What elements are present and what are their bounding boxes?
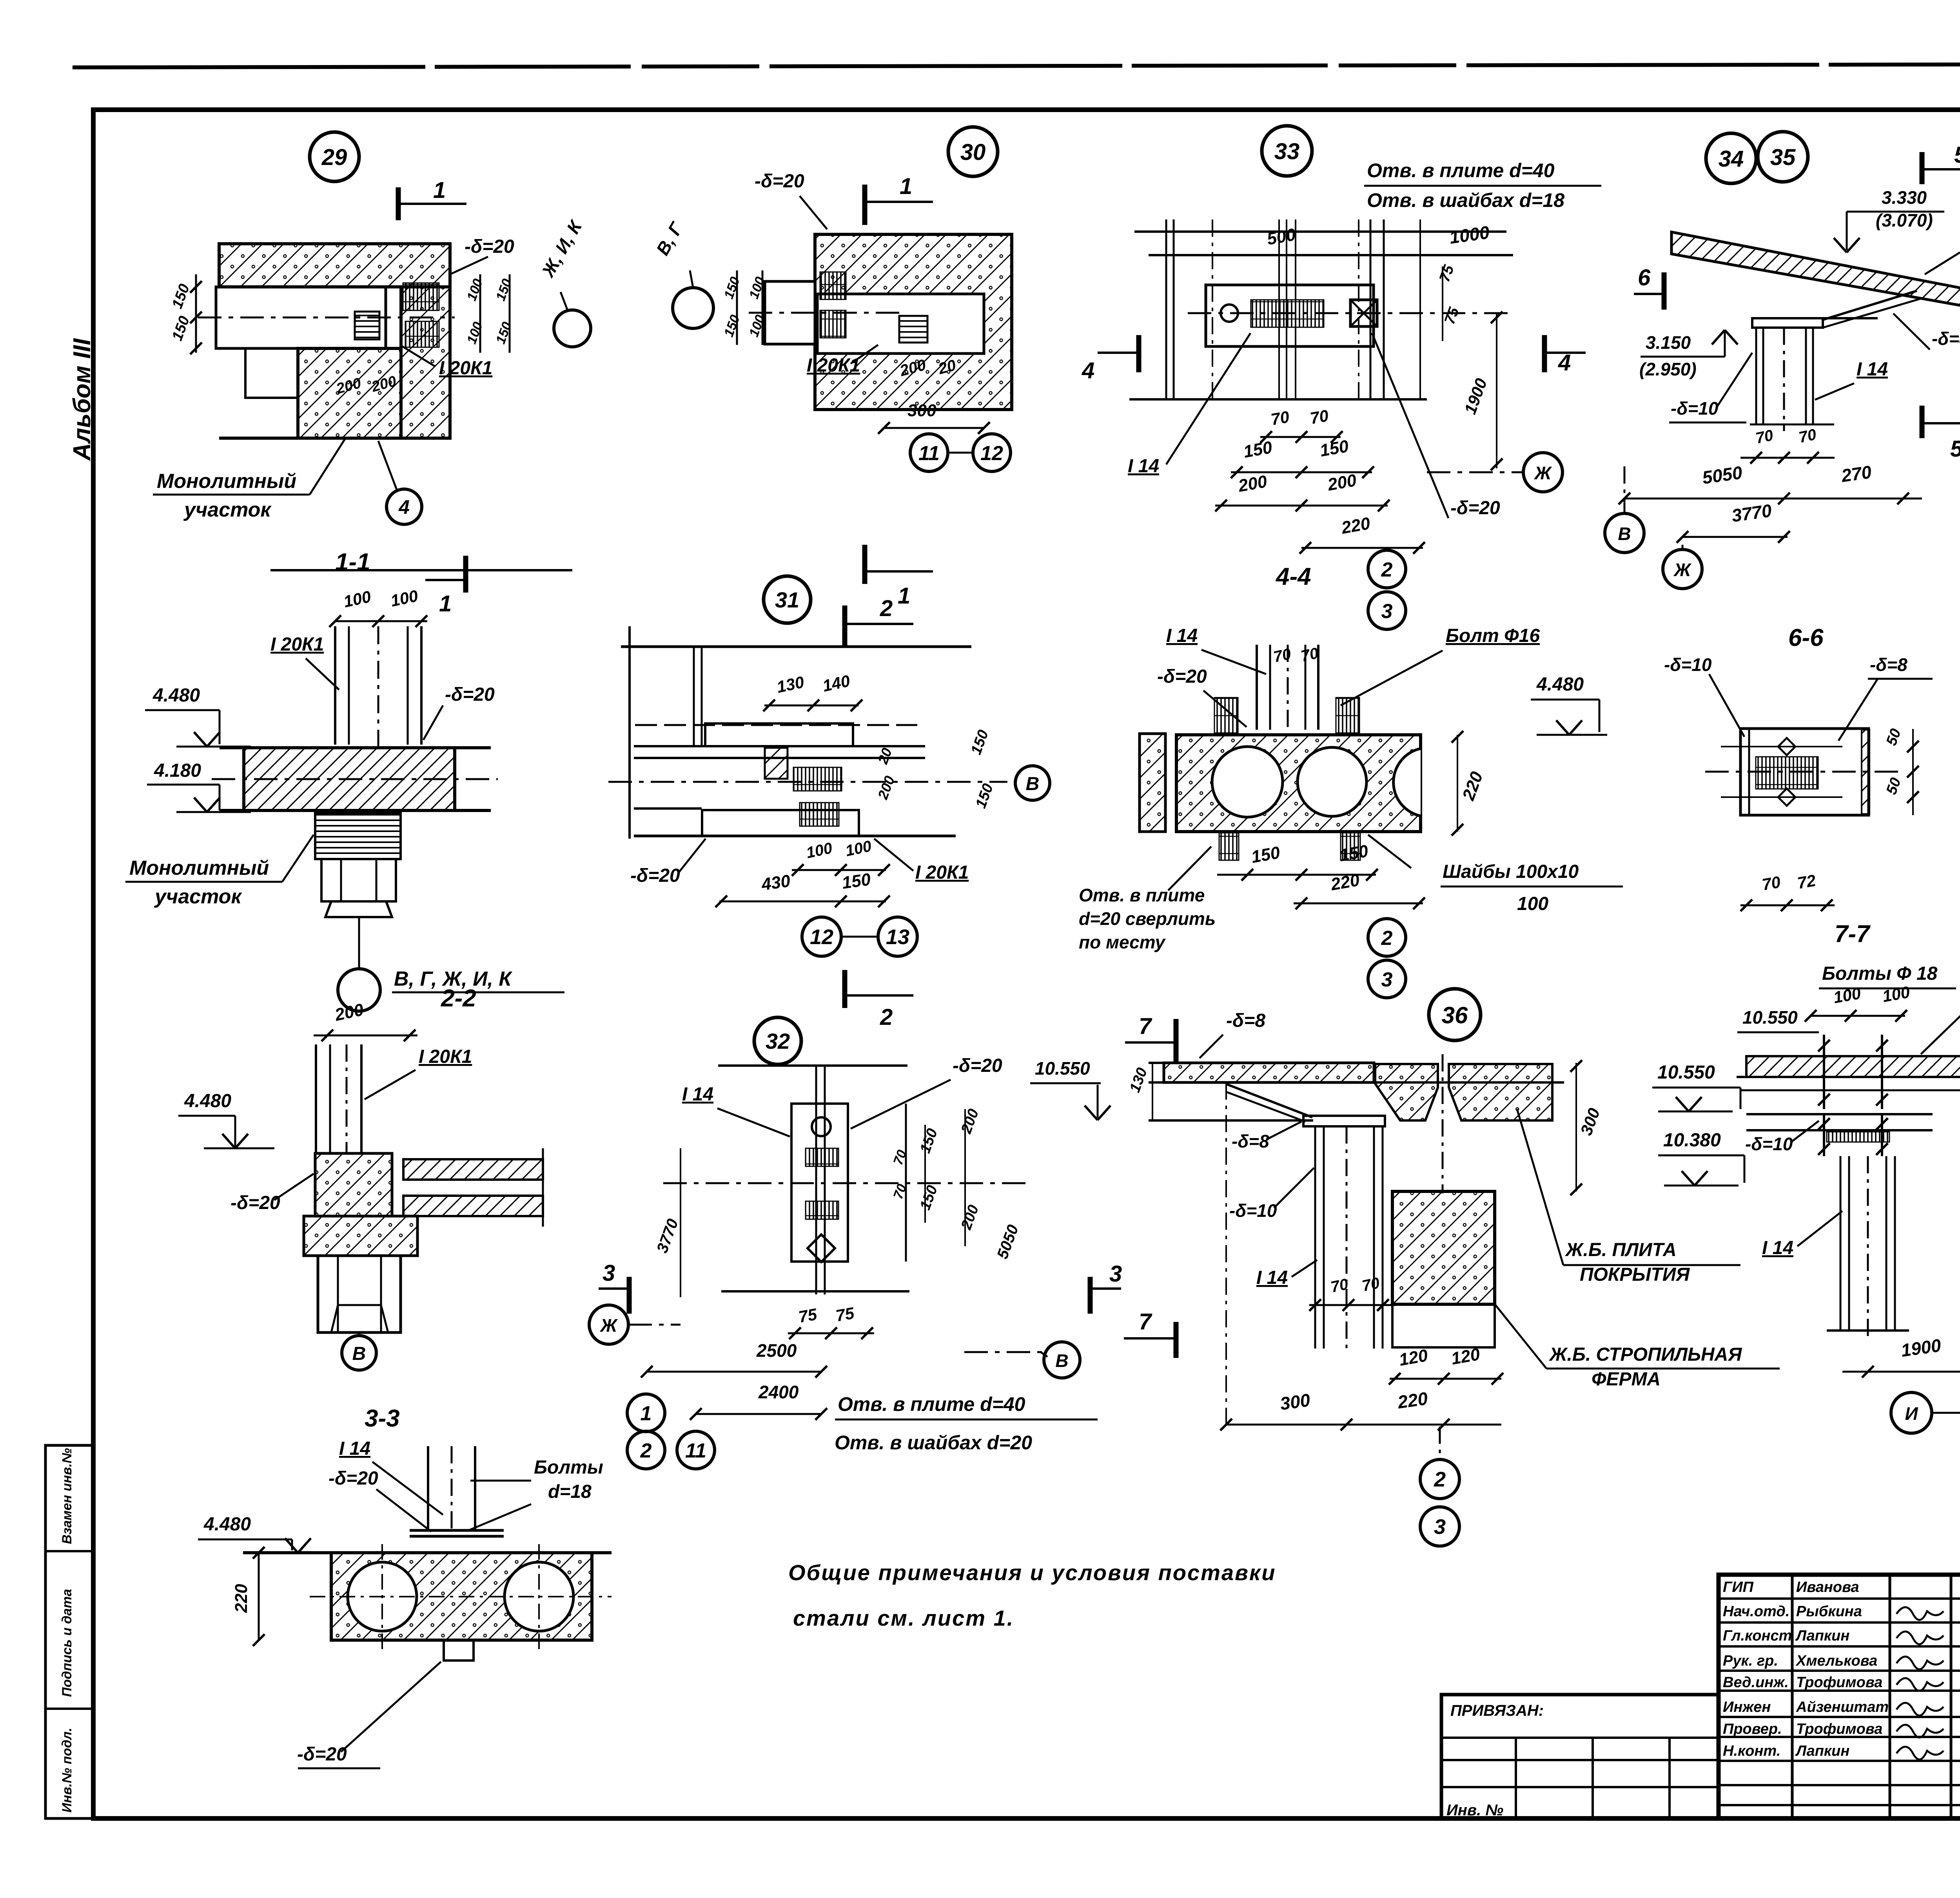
svg-text:В: В — [1026, 774, 1040, 794]
section mark 5 top (34) — [1920, 152, 1925, 184]
node36 column — [1314, 1126, 1316, 1349]
svg-text:7: 7 — [1139, 1309, 1152, 1334]
4-4 right dim 220 — [1457, 735, 1458, 832]
svg-text:Болты: Болты — [534, 1457, 603, 1478]
svg-text:Лапкин: Лапкин — [1795, 1628, 1849, 1644]
node31 refs 12 13 — [802, 917, 841, 956]
svg-text:300: 300 — [1279, 1390, 1312, 1414]
svg-text:75: 75 — [797, 1305, 818, 1326]
svg-text:12: 12 — [810, 925, 833, 949]
svg-text:Ж: Ж — [1534, 463, 1552, 483]
svg-text:-δ=20: -δ=20 — [230, 1193, 280, 1213]
svg-text:Монолитный: Монолитный — [157, 470, 296, 493]
outer top trim line — [73, 63, 1960, 67]
node29 top hatched band — [219, 244, 450, 287]
node34 sloped roof band — [1671, 232, 1960, 308]
4-4 refs 2 3 — [1368, 919, 1406, 956]
3-3 slab with cores — [331, 1553, 592, 1640]
4-4 left block — [1140, 734, 1165, 832]
svg-text:В: В — [1055, 1351, 1068, 1371]
svg-text:I 14: I 14 — [1128, 456, 1159, 477]
svg-text:ПРИВЯЗАН:: ПРИВЯЗАН: — [1450, 1702, 1544, 1719]
section mark 1 top (node30) — [862, 185, 867, 225]
svg-text:220: 220 — [1396, 1388, 1429, 1412]
svg-text:Взамен инв.№: Взамен инв.№ — [60, 1448, 74, 1544]
svg-text:6-6: 6-6 — [1788, 624, 1824, 651]
svg-text:12: 12 — [980, 442, 1003, 465]
svg-text:3: 3 — [1381, 600, 1393, 623]
section mark 3 left (node32) — [627, 1277, 632, 1314]
node33 bottom line — [1129, 398, 1427, 401]
svg-text:-δ=20: -δ=20 — [297, 1744, 347, 1765]
2-2 pier hatched — [315, 1153, 392, 1216]
svg-text:d=18: d=18 — [548, 1481, 592, 1502]
svg-text:72: 72 — [1796, 871, 1817, 892]
svg-text:4: 4 — [1082, 358, 1094, 383]
svg-text:10.550: 10.550 — [1035, 1058, 1090, 1079]
svg-text:70: 70 — [1299, 645, 1320, 665]
svg-text:В: В — [352, 1343, 366, 1364]
svg-text:70: 70 — [1760, 872, 1782, 894]
svg-text:Трофимова: Трофимова — [1796, 1674, 1882, 1691]
svg-text:35: 35 — [1770, 145, 1796, 170]
svg-text:I 20К1: I 20К1 — [915, 862, 969, 883]
node30 beam pocket — [817, 294, 984, 353]
svg-text:1: 1 — [439, 591, 452, 616]
svg-text:70: 70 — [1797, 426, 1818, 446]
svg-text:7-7: 7-7 — [1835, 921, 1871, 948]
node32 gusset plate — [791, 1104, 848, 1262]
svg-text:I 14: I 14 — [339, 1438, 370, 1459]
3-3 column — [427, 1446, 429, 1530]
node31 hatched filler — [765, 748, 788, 779]
svg-text:11: 11 — [918, 442, 940, 465]
node33 verticals — [1165, 219, 1167, 399]
svg-text:I 20К1: I 20К1 — [270, 634, 324, 655]
node32 diamond bolt — [808, 1235, 835, 1262]
svg-text:(3.070): (3.070) — [1876, 210, 1933, 230]
svg-text:-δ=8: -δ=8 — [1870, 654, 1907, 675]
node30 plate — [899, 316, 927, 343]
svg-text:I 14: I 14 — [1857, 359, 1888, 380]
svg-text:стали см. лист 1.: стали см. лист 1. — [793, 1606, 1014, 1630]
svg-text:1: 1 — [898, 583, 910, 609]
svg-text:-δ=8: -δ=8 — [1226, 1010, 1265, 1031]
svg-text:Рук. гр.: Рук. гр. — [1723, 1653, 1778, 1669]
6-6 right hatched edge — [1862, 730, 1869, 814]
node36 truss block — [1392, 1191, 1495, 1304]
svg-text:Болты Ф 18: Болты Ф 18 — [1822, 963, 1938, 984]
node 34 35 bubbles — [1706, 133, 1756, 183]
svg-text:Хмелькова: Хмелькова — [1795, 1653, 1877, 1669]
section mark 4 left (node33) — [1098, 352, 1139, 354]
3-3 vert dim 220 — [258, 1553, 260, 1640]
svg-text:ФЕРМА: ФЕРМА — [1592, 1369, 1661, 1390]
node29 beam — [216, 287, 386, 348]
svg-text:10.550: 10.550 — [1742, 1007, 1798, 1028]
svg-text:Инжен: Инжен — [1723, 1699, 1771, 1715]
svg-text:-δ=20: -δ=20 — [630, 865, 680, 886]
svg-text:Рыбкина: Рыбкина — [1796, 1603, 1862, 1620]
svg-text:Трофимова: Трофимова — [1796, 1721, 1882, 1737]
svg-text:-δ=10: -δ=10 — [1671, 398, 1719, 419]
svg-text:Отв. в шайбах d=18: Отв. в шайбах d=18 — [1367, 189, 1564, 211]
svg-text:I 20К1: I 20К1 — [807, 355, 860, 376]
svg-text:Н.конт.: Н.конт. — [1723, 1743, 1780, 1759]
svg-text:70: 70 — [1361, 1274, 1381, 1295]
node31 plates — [705, 723, 853, 746]
svg-text:2500: 2500 — [756, 1340, 797, 1361]
node30 hatched mass — [815, 234, 1012, 410]
svg-text:70: 70 — [1269, 407, 1290, 428]
svg-text:36: 36 — [1442, 1002, 1468, 1028]
node36 left grid dashline — [1225, 1082, 1227, 1427]
svg-text:2: 2 — [640, 1439, 652, 1462]
svg-text:d=20 сверлить: d=20 сверлить — [1079, 908, 1216, 929]
section mark 7 top (node36) — [1125, 1041, 1176, 1044]
6-6 body — [1740, 729, 1869, 815]
svg-text:Нач.отд.: Нач.отд. — [1723, 1603, 1789, 1620]
svg-text:Иванова: Иванова — [1796, 1579, 1859, 1595]
2-2 right slab bands — [403, 1159, 543, 1180]
svg-text:-δ=20: -δ=20 — [953, 1055, 1002, 1076]
svg-text:Инв. №: Инв. № — [1446, 1802, 1503, 1819]
node33 bolt cluster — [1251, 300, 1324, 327]
node33 top lines — [1134, 230, 1506, 233]
node36 roof slab band — [1164, 1063, 1374, 1082]
section mark 1 bottom (node29) — [463, 556, 468, 593]
svg-text:Монолитный: Монолитный — [129, 857, 269, 879]
svg-text:Шайбы 100x10: Шайбы 100x10 — [1443, 861, 1579, 882]
svg-text:I 20К1: I 20К1 — [419, 1046, 472, 1067]
svg-text:4: 4 — [1558, 350, 1571, 375]
node29 right dims — [479, 274, 481, 353]
section mark 3 right (node32) — [1088, 1277, 1093, 1314]
svg-text:220: 220 — [232, 1584, 251, 1613]
node29 lower hatched mass — [298, 348, 401, 438]
privyazan table — [1441, 1695, 1719, 1818]
svg-text:-δ=10: -δ=10 — [1229, 1200, 1277, 1221]
svg-text:11: 11 — [685, 1439, 706, 1462]
svg-text:4.480: 4.480 — [152, 685, 200, 706]
svg-text:1: 1 — [900, 174, 912, 199]
svg-text:Ж: Ж — [600, 1315, 618, 1336]
svg-text:Отв. в плите: Отв. в плите — [1079, 885, 1205, 905]
node29 embedded plate — [355, 312, 379, 339]
node31 axis circle B — [1015, 766, 1050, 800]
section mark 6 left — [1662, 272, 1667, 310]
2-2 column — [315, 1044, 317, 1152]
node34 bottom break — [1750, 424, 1834, 426]
node32 axis Ж left — [589, 1305, 628, 1344]
node30 bolt clusters — [820, 272, 846, 299]
svg-text:Инв.№ подл.: Инв.№ подл. — [60, 1728, 74, 1813]
7-7 column bottom — [1827, 1329, 1909, 1332]
node 33 bubble — [1262, 126, 1312, 176]
svg-text:33: 33 — [1274, 139, 1300, 164]
section mark 1 top (node29) — [396, 187, 401, 220]
title block grid — [1719, 1597, 1960, 1600]
1-1 slab hatched — [244, 748, 455, 810]
svg-text:70: 70 — [1329, 1276, 1350, 1296]
svg-text:5: 5 — [1954, 142, 1960, 168]
svg-text:-δ=20: -δ=20 — [755, 171, 804, 192]
svg-text:2-2: 2-2 — [441, 985, 476, 1012]
svg-text:В: В — [1618, 524, 1631, 544]
svg-text:1: 1 — [433, 178, 446, 203]
7-7 slab band — [1746, 1056, 1960, 1077]
svg-text:2: 2 — [1381, 927, 1393, 950]
svg-text:70: 70 — [1754, 427, 1775, 447]
6-6 centerline — [1705, 771, 1905, 773]
svg-text:3: 3 — [1109, 1261, 1122, 1287]
svg-text:32: 32 — [766, 1029, 790, 1053]
4-4 slab with cores — [1176, 735, 1421, 832]
svg-text:430: 430 — [760, 871, 792, 894]
section mark 7 bottom (node36) — [1124, 1337, 1176, 1340]
node30 left beam — [765, 281, 815, 344]
node29 right hatched column — [401, 287, 450, 438]
node 31 bubble — [764, 576, 811, 623]
svg-text:30: 30 — [960, 140, 986, 165]
node29 bolt clusters — [403, 283, 439, 310]
node33 axis Ж — [1523, 453, 1563, 492]
svg-text:34: 34 — [1719, 146, 1744, 172]
node32 column shaft — [815, 1066, 817, 1294]
svg-text:5: 5 — [1950, 436, 1960, 462]
svg-text:7: 7 — [1139, 1013, 1152, 1039]
7-7 bolts through slab — [1823, 1035, 1825, 1109]
node29 lower block — [245, 348, 298, 398]
svg-text:ГИП: ГИП — [1723, 1579, 1754, 1595]
node 32 bubble — [754, 1017, 801, 1064]
7-7 lower plate — [1746, 1113, 1933, 1115]
section mark 5 bottom (34) — [1920, 406, 1925, 438]
svg-text:70: 70 — [1272, 645, 1293, 666]
svg-text:по месту: по месту — [1079, 932, 1166, 952]
svg-text:75: 75 — [834, 1303, 856, 1325]
svg-text:4: 4 — [398, 496, 410, 518]
svg-text:4-4: 4-4 — [1275, 563, 1311, 590]
svg-text:Гл.конст: Гл.конст — [1723, 1628, 1792, 1644]
svg-text:-δ=20: -δ=20 — [1450, 498, 1500, 518]
section mark 4 right (node33) — [1544, 352, 1586, 354]
svg-text:29: 29 — [321, 145, 347, 170]
svg-text:Провер.: Провер. — [1723, 1721, 1782, 1737]
svg-text:10.550: 10.550 — [1657, 1062, 1715, 1083]
svg-text:-δ=8: -δ=8 — [1932, 328, 1960, 349]
node30 dims left — [736, 270, 738, 345]
node36 slab end trapezoid right — [1449, 1064, 1552, 1120]
svg-text:Отв. в плите d=40: Отв. в плите d=40 — [1367, 160, 1555, 181]
node36 cap plate — [1303, 1116, 1385, 1126]
node32 centerline — [663, 1182, 1027, 1184]
4-4 column — [1256, 645, 1258, 730]
node33 refs 2 3 — [1368, 550, 1406, 588]
svg-text:I 20К1: I 20К1 — [439, 358, 492, 379]
svg-text:-δ=20: -δ=20 — [328, 1468, 378, 1489]
svg-text:2400: 2400 — [758, 1382, 799, 1402]
svg-text:-δ=8: -δ=8 — [1232, 1131, 1269, 1151]
node29 axis circle — [554, 310, 591, 347]
1-1 axis circle — [358, 917, 360, 969]
3-3 bottom plate — [444, 1640, 474, 1661]
svg-text:И: И — [1905, 1403, 1918, 1424]
node30 refs 11 12 — [910, 434, 948, 471]
svg-text:участок: участок — [154, 885, 242, 908]
svg-text:4.480: 4.480 — [1536, 674, 1584, 695]
svg-text:13: 13 — [886, 925, 909, 949]
section mark 1 bottom (node30) — [862, 545, 867, 584]
svg-text:Ж.Б. ПЛИТА: Ж.Б. ПЛИТА — [1564, 1240, 1677, 1260]
svg-text:-δ=10: -δ=10 — [1745, 1134, 1793, 1154]
node32 refs 1 2 11 — [627, 1394, 665, 1432]
node33 bolt circle — [1221, 305, 1238, 322]
svg-text:2: 2 — [1381, 558, 1393, 581]
node34 cap plate and strut — [1752, 317, 1878, 319]
svg-text:300: 300 — [907, 401, 936, 420]
svg-text:4.480: 4.480 — [203, 1514, 251, 1535]
node36 joint centerline — [1442, 1054, 1444, 1193]
svg-text:2: 2 — [1434, 1468, 1446, 1491]
node31 top chord lines — [621, 645, 971, 648]
svg-text:3-3: 3-3 — [365, 1405, 400, 1432]
svg-text:3: 3 — [1381, 968, 1393, 991]
4-4 anchor bolts — [1214, 698, 1238, 735]
svg-text:Айзенштат: Айзенштат — [1796, 1699, 1889, 1715]
svg-text:Вед.инж.: Вед.инж. — [1723, 1674, 1789, 1691]
node 36 bubble — [1429, 989, 1481, 1041]
svg-text:150: 150 — [841, 870, 872, 893]
node36 slab bottom line — [1149, 1119, 1313, 1122]
svg-text:I 14: I 14 — [682, 1084, 713, 1105]
svg-text:6: 6 — [1638, 265, 1651, 290]
svg-text:I 14: I 14 — [1166, 625, 1198, 646]
svg-text:70: 70 — [1308, 406, 1330, 427]
svg-text:Общие примечания и условия: Общие примечания и условия поставки — [788, 1560, 1276, 1585]
svg-text:4.180: 4.180 — [154, 760, 201, 781]
svg-text:I 14: I 14 — [1256, 1267, 1288, 1288]
svg-text:1-1: 1-1 — [335, 549, 370, 576]
section mark 2 bottom (node31) — [842, 970, 848, 1008]
4-4 under bolts — [1219, 833, 1239, 860]
signatures — [1896, 1607, 1944, 1620]
2-2 column below — [318, 1256, 401, 1332]
svg-text:2: 2 — [880, 596, 893, 621]
node32 bolt clusters — [806, 1148, 838, 1166]
svg-text:-δ=20: -δ=20 — [445, 684, 495, 705]
svg-text:-δ=20: -δ=20 — [1157, 666, 1207, 687]
svg-text:Ж.Б. СТРОПИЛЬНАЯ: Ж.Б. СТРОПИЛЬНАЯ — [1548, 1344, 1742, 1365]
svg-text:3.150: 3.150 — [1646, 332, 1691, 353]
svg-text:10.380: 10.380 — [1663, 1130, 1721, 1151]
node36 dim 300 right — [1575, 1063, 1577, 1191]
node32 top bolt — [812, 1117, 831, 1136]
node33 centerline — [1188, 312, 1513, 314]
node31 dashed line — [635, 724, 917, 726]
svg-text:(2.950): (2.950) — [1639, 359, 1697, 379]
3-3 core centerlines — [381, 1544, 383, 1650]
1-1 masonry pad — [315, 813, 401, 859]
node 30 bubble — [948, 127, 998, 176]
node29 ref 4 — [387, 489, 422, 524]
node31 centerline — [608, 781, 1007, 783]
svg-text:3: 3 — [603, 1260, 615, 1286]
2-2 axis circle B — [358, 1332, 360, 1336]
node33 gusset plate — [1206, 285, 1374, 346]
svg-text:2: 2 — [880, 1004, 893, 1030]
7-7 column — [1840, 1156, 1842, 1331]
svg-text:ПОКРЫТИЯ: ПОКРЫТИЯ — [1580, 1264, 1690, 1285]
node34 column — [1755, 328, 1757, 424]
6-6 bolts — [1778, 738, 1795, 755]
svg-text:Альбом III: Альбом III — [69, 338, 96, 461]
section mark 2 top (node31) — [842, 605, 848, 646]
svg-text:I 14: I 14 — [1762, 1238, 1793, 1258]
svg-text:270: 270 — [1840, 462, 1873, 486]
svg-text:Лапкин: Лапкин — [1795, 1743, 1849, 1759]
svg-text:3.330: 3.330 — [1882, 187, 1927, 208]
1-1 column I20K1 — [334, 626, 336, 745]
node36 sloped strut — [1226, 1084, 1312, 1117]
node29 left dims — [195, 274, 197, 353]
node36 refs 2 3 — [1420, 1459, 1459, 1499]
svg-text:Отв. в шайбах d=20: Отв. в шайбах d=20 — [835, 1432, 1032, 1454]
node36 slab end trapezoid left — [1375, 1064, 1438, 1120]
svg-text:Отв. в плите d=40: Отв. в плите d=40 — [838, 1393, 1025, 1415]
svg-text:Ж: Ж — [1673, 560, 1692, 580]
node 29 bubble — [310, 132, 359, 181]
svg-text:-δ=20: -δ=20 — [465, 236, 514, 257]
node31 lower plates — [702, 810, 859, 836]
node32 bottom boundary — [721, 1290, 909, 1293]
node31 bolt clusters — [793, 767, 842, 791]
svg-text:31: 31 — [775, 587, 799, 612]
svg-text:участок: участок — [183, 499, 272, 521]
svg-text:-δ=10: -δ=10 — [1664, 654, 1712, 675]
2-2 spread block — [304, 1216, 417, 1256]
svg-text:Болт Ф16: Болт Ф16 — [1446, 625, 1540, 646]
node32 axis B right — [1044, 1342, 1080, 1378]
svg-text:100: 100 — [1517, 894, 1548, 914]
node34 axes — [1605, 513, 1644, 553]
1-1 corbel — [321, 859, 396, 901]
node32 top boundary — [718, 1064, 907, 1067]
svg-text:3: 3 — [1434, 1515, 1446, 1539]
node33 square bolt — [1350, 300, 1377, 326]
svg-text:4.480: 4.480 — [184, 1091, 231, 1111]
left stamp column — [45, 1445, 93, 1818]
svg-text:Подпись и дата: Подпись и дата — [60, 1589, 74, 1697]
title block outer — [1719, 1575, 1960, 1818]
svg-text:1: 1 — [641, 1402, 652, 1425]
